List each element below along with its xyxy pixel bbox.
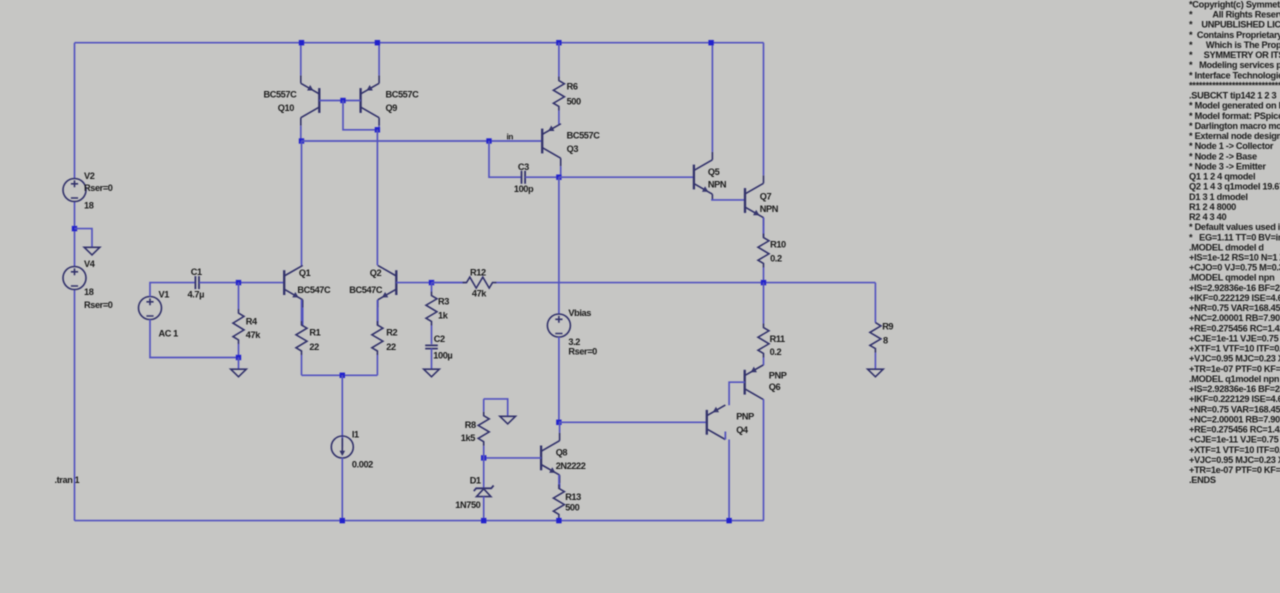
svg-text:D1 3 1 dmodel: D1 3 1 dmodel	[1189, 192, 1248, 202]
svg-text:* Modeling services provided: * Modeling services provided by *	[1189, 60, 1280, 70]
svg-text:*Copyright(c) Symmetry Design: *Copyright(c) Symmetry Design Systems*	[1189, 0, 1280, 10]
svg-text:+RE=0.275456 RC=1.42157 XTB=0.: +RE=0.275456 RC=1.42157 XTB=0.1 XTI=1	[1189, 323, 1280, 333]
wire I1 to bottom rail	[341, 458, 343, 521]
wire tail to I1	[341, 375, 343, 447]
svg-text:.SUBCKT tip142 1 2 3: .SUBCKT tip142 1 2 3	[1189, 91, 1276, 101]
svg-text:R11: R11	[770, 334, 785, 344]
svg-text:+RE=0.275456 RC=1.42157 XTB=0.: +RE=0.275456 RC=1.42157 XTB=0.1 XTI=1	[1189, 425, 1280, 435]
wire to Q4 base	[559, 421, 707, 423]
junction tail / I1	[340, 373, 345, 378]
resistor R10	[758, 218, 769, 283]
transistor Q5 (npn)	[694, 43, 713, 200]
junction Q9 emitter at rail	[375, 40, 380, 45]
wire to supply ground	[75, 229, 93, 248]
svg-text:V2: V2	[84, 171, 95, 181]
svg-text:+CJO=0 VJ=0.75 M=0.33 FC=0.5: +CJO=0 VJ=0.75 M=0.33 FC=0.5	[1189, 263, 1280, 273]
svg-text:in: in	[507, 133, 514, 142]
svg-text:Q6: Q6	[769, 382, 781, 392]
junction Q2 base / R3 / R12	[429, 280, 434, 285]
svg-text:R6: R6	[567, 81, 578, 91]
wire left rail lower (V4 to bottom)	[74, 290, 76, 521]
svg-text:+IS=1e-12 RS=10 N=1 XTI=3.5: +IS=1e-12 RS=10 N=1 XTI=3.5	[1189, 253, 1280, 263]
svg-text:Q10: Q10	[278, 103, 294, 113]
svg-text:+IKF=0.222129 ISE=4.60389e-14: +IKF=0.222129 ISE=4.60389e-14 NE=1.5	[1189, 394, 1280, 404]
svg-text:+VJC=0.95 MJC=0.23 XCJC=0.9 TR: +VJC=0.95 MJC=0.23 XCJC=0.9 TR=1e-07	[1189, 354, 1280, 364]
resistor R9	[870, 323, 881, 369]
svg-text:1k5: 1k5	[461, 433, 475, 443]
svg-text:R2: R2	[386, 327, 397, 337]
junction R6 at top rail	[556, 40, 561, 45]
svg-text:* EG=1.11 TT=0 BV=infinite I: * EG=1.11 TT=0 BV=infinite IBV=1mA	[1189, 232, 1280, 242]
svg-text:BC557C: BC557C	[264, 90, 298, 100]
svg-text:4.7µ: 4.7µ	[188, 289, 205, 299]
svg-text:Q4: Q4	[736, 425, 749, 435]
junction mirror bases	[340, 98, 345, 103]
svg-text:.MODEL dmodel d: .MODEL dmodel d	[1189, 242, 1264, 252]
svg-text:0.002: 0.002	[352, 459, 373, 469]
resistor R8	[478, 399, 489, 458]
svg-text:+TR=1e-07 PTF=0 KF=0 AF=1: +TR=1e-07 PTF=0 KF=0 AF=1	[1189, 364, 1280, 374]
voltage source Vbias	[547, 314, 570, 337]
junction in / C3 tap	[486, 138, 491, 143]
transistor Q8 (2N2222 npn)	[541, 422, 560, 488]
svg-text:* Node 2 -> Base: * Node 2 -> Base	[1189, 151, 1257, 161]
svg-text:+IKF=0.222129 ISE=4.60389e-14: +IKF=0.222129 ISE=4.60389e-14 NE=1.5	[1189, 293, 1280, 303]
svg-text:+IS=2.92836e-16 BF=234.748 NF=: +IS=2.92836e-16 BF=234.748 NF=0.85	[1189, 283, 1280, 293]
svg-text:* All Rights Reserved: * All Rights Reserved *	[1189, 10, 1280, 20]
wire Q10 base to Q9 base	[319, 100, 360, 102]
svg-text:+NR=0.75 VAR=168.458 IKR=0.222: +NR=0.75 VAR=168.458 IKR=0.222129	[1189, 303, 1280, 313]
wire Q8 base wire	[484, 457, 541, 459]
junction I1 at bottom rail	[340, 518, 345, 523]
wire Q2 base to R3 node	[396, 282, 466, 284]
svg-text:V4: V4	[84, 259, 96, 269]
ground supply midpoint	[84, 247, 100, 255]
junction Q4 collector at bottom rail	[726, 518, 731, 523]
wire V1 plus to C1	[150, 283, 195, 297]
svg-text:+XTF=1 VTF=10 ITF=0.01 CJC=1e-: +XTF=1 VTF=10 ITF=0.01 CJC=1e-11	[1189, 445, 1280, 455]
svg-text:100p: 100p	[514, 184, 534, 194]
svg-text:* Default values used in dmode: * Default values used in dmodel:	[1189, 222, 1280, 232]
svg-text:+XTF=1 VTF=10 ITF=0.01 CJC=1e-: +XTF=1 VTF=10 ITF=0.01 CJC=1e-11	[1189, 344, 1280, 354]
svg-text:.MODEL q1model npn: .MODEL q1model npn	[1189, 374, 1280, 384]
zener diode D1 (1N750)	[474, 486, 494, 497]
svg-text:* SYMMETRY OR ITS LICENSOR: * SYMMETRY OR ITS LICENSORS *	[1189, 50, 1280, 60]
svg-text:R8: R8	[465, 420, 476, 430]
wire C3 left branch	[489, 141, 521, 177]
voltage source V2	[63, 179, 86, 202]
resistor R12	[432, 277, 876, 288]
junction VAS output node	[556, 175, 561, 180]
wire Q9 collector down to Q2 collector	[376, 130, 378, 266]
wire diff pair tail	[302, 374, 378, 376]
svg-text:C3: C3	[518, 162, 529, 172]
current source I1	[331, 436, 353, 458]
svg-text:Rser=0: Rser=0	[84, 183, 113, 193]
wire C2 to ground	[431, 349, 433, 370]
svg-text:500: 500	[567, 96, 581, 106]
svg-text:* Interface Technologies www.i: * Interface Technologies www.i-t.com *	[1189, 70, 1280, 80]
svg-text:V1: V1	[159, 289, 170, 299]
svg-text:D1: D1	[470, 475, 481, 485]
transistor Q1 (BC547C npn)	[284, 265, 303, 325]
svg-text:18: 18	[84, 201, 94, 211]
svg-text:C2: C2	[434, 334, 445, 344]
wire Vbias to lower driver node	[558, 337, 560, 422]
svg-text:NPN: NPN	[760, 204, 779, 214]
transistor Q2 (BC547C npn)	[378, 265, 397, 325]
resistor R6	[553, 43, 564, 125]
junction Q9 collector node	[375, 127, 380, 132]
svg-text:* External node designations: * External node designations	[1189, 131, 1280, 141]
wire C3 right to VAS node	[525, 176, 559, 178]
junction supply midpoint	[72, 226, 77, 231]
ground at R9	[868, 369, 884, 377]
transistor Q9 (BC557C pnp)	[361, 43, 380, 130]
svg-text:+NC=2.00001 RB=7.90722 IRB=0.1: +NC=2.00001 RB=7.90722 IRB=0.1 RBM=0.1	[1189, 313, 1280, 323]
wire C1 to Q1 base node	[199, 282, 284, 284]
svg-text:+CJE=1e-11 VJE=0.75 MJE=0.33 T: +CJE=1e-11 VJE=0.75 MJE=0.33 TF=1e-09	[1189, 334, 1280, 344]
transistor Q3 (BC557C pnp)	[542, 124, 561, 177]
wire Q8 base to D1	[483, 458, 485, 488]
svg-text:18: 18	[84, 287, 94, 297]
svg-text:PNP: PNP	[736, 411, 754, 421]
wire R8 top to ground	[484, 399, 508, 416]
capacitor C2	[425, 345, 438, 348]
ground at R4 bottom	[231, 369, 247, 377]
capacitor C1	[195, 276, 199, 289]
svg-text:0.2: 0.2	[770, 347, 782, 357]
resistor R13	[553, 475, 564, 521]
wire Q6 collector to bottom rail	[763, 399, 765, 520]
svg-text:BC557C: BC557C	[386, 90, 420, 100]
svg-text:R13: R13	[565, 492, 581, 502]
wire Q6 base to Q4 emitter	[729, 382, 745, 405]
svg-text:* Node 1 -> Collector: * Node 1 -> Collector	[1189, 141, 1274, 151]
ground at R8	[500, 416, 516, 424]
svg-text:R1 2 4 8000: R1 2 4 8000	[1189, 202, 1236, 212]
junction Q1 base / R4	[236, 280, 241, 285]
svg-text:Q3: Q3	[567, 144, 579, 154]
svg-text:3.2: 3.2	[568, 337, 580, 347]
svg-text:.ENDS: .ENDS	[1189, 475, 1216, 485]
svg-text:.tran 1: .tran 1	[55, 475, 80, 485]
wire output to R9	[874, 283, 876, 323]
junction R13 at bottom rail	[556, 518, 561, 523]
wire Q5 emitter to Q7 base	[711, 199, 745, 201]
resistor R2	[372, 300, 383, 376]
svg-text:100µ: 100µ	[433, 350, 452, 360]
svg-text:+TR=1e-07 PTF=0 KF=0 AF=1: +TR=1e-07 PTF=0 KF=0 AF=1	[1189, 465, 1280, 475]
svg-text:R4: R4	[246, 316, 258, 326]
svg-text:R3: R3	[438, 296, 449, 306]
svg-text:1N750: 1N750	[455, 500, 480, 510]
voltage source V1	[139, 297, 162, 320]
svg-text:* Which is The Property o: * Which is The Property of *	[1189, 40, 1280, 50]
svg-text:R9: R9	[882, 321, 893, 331]
resistor R1	[296, 300, 307, 376]
svg-text:* UNPUBLISHED LICENSED SOFT: * UNPUBLISHED LICENSED SOFTWARE *	[1189, 20, 1280, 30]
wire D1 to bottom rail	[483, 497, 485, 521]
transistor Q10 (BC557C pnp)	[301, 43, 320, 141]
svg-text:R10: R10	[770, 239, 786, 249]
svg-text:Rser=0: Rser=0	[84, 300, 113, 310]
wire left rail V2-V4 segment	[74, 202, 76, 267]
svg-text:******************************: ***************************************	[1189, 81, 1280, 91]
resistor R3	[426, 283, 437, 345]
svg-text:+CJE=1e-11 VJE=0.75 MJE=0.33 T: +CJE=1e-11 VJE=0.75 MJE=0.33 TF=1e-09	[1189, 435, 1280, 445]
wire R4 bottom ground stub	[238, 358, 240, 370]
wire Q10 collector down to Q1 collector	[301, 141, 303, 265]
svg-text:Q8: Q8	[556, 448, 568, 458]
svg-text:Q5: Q5	[708, 167, 720, 177]
svg-text:* Model format: PSpice: * Model format: PSpice	[1189, 111, 1280, 121]
resistor R4	[233, 283, 244, 358]
junction Q5 collector at rail	[708, 40, 713, 45]
voltage source V4	[63, 267, 86, 290]
svg-text:Q2 1 4 3 q1model 19.6768: Q2 1 4 3 q1model 19.6768	[1189, 182, 1280, 192]
wire Q4 collector to bottom rail	[728, 440, 730, 521]
junction Q10 emitter at rail	[299, 40, 304, 45]
svg-text:8: 8	[883, 335, 888, 345]
svg-text:+IS=2.92836e-16 BF=234.748 NF=: +IS=2.92836e-16 BF=234.748 NF=0.85	[1189, 384, 1280, 394]
wire left supply rail upper (to V2)	[74, 43, 76, 179]
transistor Q7 (npn)	[745, 43, 764, 238]
svg-text:I1: I1	[352, 429, 359, 439]
svg-text:+NR=0.75 VAR=168.458 IKR=0.222: +NR=0.75 VAR=168.458 IKR=0.222129	[1189, 404, 1280, 414]
svg-text:BC557C: BC557C	[567, 131, 601, 141]
junction output node	[761, 280, 766, 285]
wire top supply rail	[75, 42, 764, 44]
svg-text:R12: R12	[470, 267, 486, 277]
wire in net	[302, 140, 543, 142]
svg-text:22: 22	[309, 342, 319, 352]
svg-text:47k: 47k	[472, 289, 487, 299]
svg-text:Q9: Q9	[386, 103, 398, 113]
junction Q10 collector / in node	[299, 138, 304, 143]
svg-text:500: 500	[565, 503, 579, 513]
wire mirror base to Q9 collector	[343, 101, 377, 130]
svg-text:PNP: PNP	[769, 370, 787, 380]
transistor Q6 (pnp)	[745, 365, 764, 399]
ground at C2	[424, 369, 440, 377]
svg-text:Q2: Q2	[370, 268, 382, 278]
svg-text:Q1 1 2 4 qmodel: Q1 1 2 4 qmodel	[1189, 172, 1255, 182]
junction R8 / D1 / Q8 base	[481, 455, 486, 460]
svg-text:* Darlington macro model: * Darlington macro model	[1189, 121, 1280, 131]
svg-text:.MODEL qmodel npn: .MODEL qmodel npn	[1189, 273, 1275, 283]
wire VAS node to Q5 base	[559, 176, 694, 178]
junction R4 bottom / V1 / ground	[236, 355, 241, 360]
svg-text:* Node 3 -> Emitter: * Node 3 -> Emitter	[1189, 161, 1266, 171]
svg-text:R1: R1	[309, 327, 320, 337]
svg-text:Q7: Q7	[760, 192, 772, 202]
svg-text:AC 1: AC 1	[159, 329, 179, 339]
capacitor C3	[522, 171, 526, 184]
svg-text:2N2222: 2N2222	[556, 461, 586, 471]
transistor Q4 (pnp)	[707, 405, 726, 439]
junction D1 at bottom rail	[481, 518, 486, 523]
wire V1 minus to input ground node	[150, 320, 239, 358]
svg-text:0.2: 0.2	[770, 254, 782, 264]
junction Vbias- / Q8 collector / Q4 base	[556, 420, 561, 425]
svg-text:Q1: Q1	[299, 268, 311, 278]
wire VAS node down to Vbias	[558, 177, 560, 314]
svg-text:Vbias: Vbias	[568, 308, 591, 318]
svg-text:* Model generated on February: * Model generated on February 28, 96	[1189, 101, 1280, 111]
svg-text:Rser=0: Rser=0	[568, 347, 597, 357]
svg-text:+VJC=0.95 MJC=0.23 XCJC=0.9 TR: +VJC=0.95 MJC=0.23 XCJC=0.9 TR=1e-07	[1189, 455, 1280, 465]
svg-text:+NC=2.00001 RB=7.90722 IRB=0.1: +NC=2.00001 RB=7.90722 IRB=0.1 RBM=0.1	[1189, 414, 1280, 424]
svg-text:1k: 1k	[438, 311, 449, 321]
wire bottom rail	[75, 520, 764, 522]
svg-text:R2 4 3 40: R2 4 3 40	[1189, 212, 1226, 222]
svg-text:* Contains Proprietary Inform: * Contains Proprietary Information *	[1189, 30, 1280, 40]
svg-text:BC547C: BC547C	[297, 285, 331, 295]
svg-text:47k: 47k	[246, 330, 261, 340]
svg-text:BC547C: BC547C	[349, 285, 383, 295]
svg-text:22: 22	[386, 342, 396, 352]
svg-text:C1: C1	[191, 267, 202, 277]
resistor R11	[758, 283, 769, 366]
svg-text:NPN: NPN	[708, 180, 727, 190]
